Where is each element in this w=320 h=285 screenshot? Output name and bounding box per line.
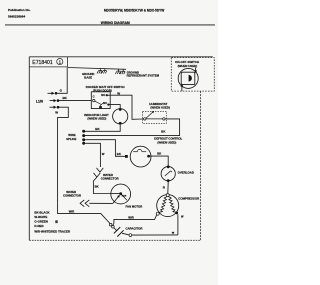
- on-off switch contact half-disc: [189, 75, 192, 82]
- svg-text:WIRING DIAGRAM: WIRING DIAGRAM: [101, 21, 130, 25]
- wire splice dot 3 to defrost control: [85, 140, 125, 157]
- svg-text:W: W: [55, 111, 58, 115]
- svg-text:C: C: [93, 95, 95, 99]
- on-off switch inner square: [181, 72, 195, 84]
- svg-text:W: W: [102, 152, 105, 156]
- title block E718401: [29, 57, 67, 67]
- wire W neutral down left side: [58, 107, 69, 203]
- wire overload to compressor: [167, 182, 169, 194]
- rocker switch blade: [95, 101, 101, 104]
- overload circle: [161, 167, 175, 181]
- diagram outer border left: [28, 57, 30, 241]
- wire compressor right to capacitor rail: [177, 214, 179, 235]
- svg-text:CAPACITOR: CAPACITOR: [126, 226, 144, 230]
- defrost control left terminal square: [125, 155, 128, 158]
- terminal G: [48, 92, 58, 95]
- svg-text:(WHEN USED): (WHEN USED): [157, 140, 176, 144]
- svg-text:MDX5DRYW, MDD5DKYW & MDX-5DYW: MDX5DRYW, MDD5DKYW & MDX-5DYW: [104, 9, 164, 13]
- stray mark: [55, 220, 57, 223]
- splice dot 2: [82, 134, 85, 137]
- on-off switch circle: [178, 68, 198, 88]
- on-off switch top stub with arrow: [195, 67, 197, 71]
- svg-text:BK: BK: [161, 130, 165, 134]
- water connector 1 chevrons: [97, 168, 104, 172]
- ground base symbol 2: [102, 69, 107, 74]
- indicator light top terminal: [119, 108, 122, 111]
- svg-text:W-WHITE: W-WHITE: [34, 215, 47, 219]
- overload top terminal: [167, 165, 170, 168]
- header publication number: [8, 8, 31, 19]
- svg-text:FAN: FAN: [122, 195, 127, 198]
- svg-text:BK-BLACK: BK-BLACK: [34, 211, 50, 215]
- wire connector 2 to fan motor arrow: [89, 202, 113, 204]
- compressor top terminal: [166, 194, 169, 197]
- wire BK to rocker switch: [59, 100, 91, 102]
- svg-text:W/R: W/R: [69, 210, 74, 214]
- capacitor output lead: [122, 233, 129, 235]
- svg-text:BK: BK: [95, 127, 100, 131]
- humidistat dashed box: [143, 111, 167, 123]
- on-off switch bottom stub with arrow: [181, 86, 183, 91]
- svg-text:1: 1: [59, 59, 62, 64]
- fan motor circle: [111, 184, 131, 204]
- svg-text:(WHEN USED): (WHEN USED): [150, 105, 170, 109]
- wire defrost control to overload: [150, 156, 168, 166]
- svg-text:NO: NO: [101, 93, 105, 97]
- water connector 2 chevrons: [80, 200, 84, 207]
- svg-text:BK: BK: [157, 152, 161, 156]
- compressor winding left: [159, 197, 166, 213]
- wire NO to humidistat: [108, 95, 143, 119]
- junction arrow: [172, 232, 175, 235]
- humidistat inner wire: [143, 118, 163, 120]
- header rule: [5, 24, 215, 26]
- wire G to bus: [57, 68, 67, 94]
- defrost control right terminal: [147, 155, 150, 158]
- svg-text:5995238984: 5995238984: [8, 15, 25, 19]
- splice dot 3: [82, 138, 85, 141]
- svg-text:BASE: BASE: [84, 75, 92, 79]
- terminal L1/N: [50, 99, 60, 102]
- diagram outer border top: [29, 56, 213, 58]
- svg-text:R: R: [163, 185, 166, 189]
- ground bus wire: [68, 68, 127, 70]
- rocker switch box: [91, 92, 110, 109]
- ground refrigerant symbol 2: [120, 69, 125, 74]
- svg-text:REFRIGERANT SYSTEM: REFRIGERANT SYSTEM: [127, 74, 160, 78]
- compressor winding right: [169, 197, 176, 213]
- diagram outer border bottom: [29, 239, 200, 241]
- svg-text:CONNECTOR: CONNECTOR: [101, 177, 119, 181]
- ground base symbol 1: [97, 68, 102, 73]
- wire connector 1 to fan motor: [93, 177, 111, 193]
- wire compressor left W/R: [113, 215, 157, 226]
- humidistat right terminal: [163, 118, 165, 120]
- rocker switch bottom terminal square: [99, 106, 102, 109]
- svg-text:W: W: [181, 215, 184, 219]
- svg-text:BK: BK: [117, 152, 121, 156]
- svg-text:G-GREEN: G-GREEN: [34, 220, 48, 224]
- svg-text:NC: NC: [103, 101, 107, 105]
- wire neutral to water connector 2 and W/R rail: [58, 203, 110, 223]
- splice dot 4: [82, 142, 85, 145]
- svg-text:W/R-WHITE/RED TRACER: W/R-WHITE/RED TRACER: [34, 229, 71, 233]
- capacitor lead: [114, 228, 117, 231]
- fan motor arrow from neutral: [113, 196, 119, 203]
- ground refrigerant symbol 1: [115, 69, 120, 74]
- wire humidistat to splice dot 2: [85, 119, 180, 136]
- svg-text:Publication No.: Publication No.: [8, 8, 31, 12]
- capacitor output terminal: [129, 234, 132, 237]
- legend: [34, 211, 71, 234]
- splice dot 1: [82, 130, 85, 133]
- humidistat left terminal: [144, 118, 146, 120]
- defrost control bimetal: [133, 151, 137, 153]
- svg-text:(WHEN USED): (WHEN USED): [87, 117, 106, 121]
- svg-text:R-RED: R-RED: [34, 224, 43, 228]
- wire splice dot 4 to water connector: [85, 143, 100, 167]
- svg-text:(WHEN USED): (WHEN USED): [178, 64, 198, 68]
- svg-text:G: G: [60, 88, 63, 92]
- on-off switch dashed box: [171, 58, 214, 92]
- terminal W: [50, 106, 60, 109]
- humidistat blade with arrow: [146, 112, 153, 118]
- svg-text:CONNECTOR: CONNECTOR: [63, 194, 81, 198]
- svg-text:FAN MOTOR: FAN MOTOR: [126, 205, 143, 209]
- wire indicator light to splice dot 1: [85, 125, 120, 132]
- rocker switch pivot: [93, 99, 95, 101]
- svg-text:COMPRESSOR: COMPRESSOR: [178, 196, 200, 200]
- compressor bottom-right terminal: [175, 212, 178, 215]
- wire capacitor rail: [132, 234, 178, 236]
- indicator light circle: [113, 109, 128, 124]
- svg-text:W/R: W/R: [128, 216, 133, 220]
- fan motor inner lead: [121, 194, 127, 201]
- svg-text:E718401: E718401: [32, 60, 53, 66]
- capacitor plates: [114, 227, 120, 233]
- diagram outer border right: [200, 91, 202, 240]
- overload bottom terminal: [167, 179, 170, 182]
- svg-text:SPLICE: SPLICE: [66, 137, 76, 141]
- svg-text:BK: BK: [95, 184, 99, 188]
- svg-text:W: W: [117, 92, 120, 96]
- compressor bottom-left terminal: [156, 212, 159, 215]
- overload blade: [165, 171, 171, 176]
- fan motor center terminal: [111, 193, 121, 195]
- indicator light bottom terminal: [119, 122, 122, 125]
- capacitor terminal circles: [109, 223, 112, 226]
- svg-text:OVERLOAD: OVERLOAD: [178, 170, 194, 174]
- defrost control circle: [130, 146, 151, 167]
- svg-text:L1/N: L1/N: [36, 99, 44, 103]
- svg-text:BK: BK: [63, 96, 68, 100]
- wire NC to indicator light: [109, 105, 120, 110]
- compressor circle: [157, 195, 179, 217]
